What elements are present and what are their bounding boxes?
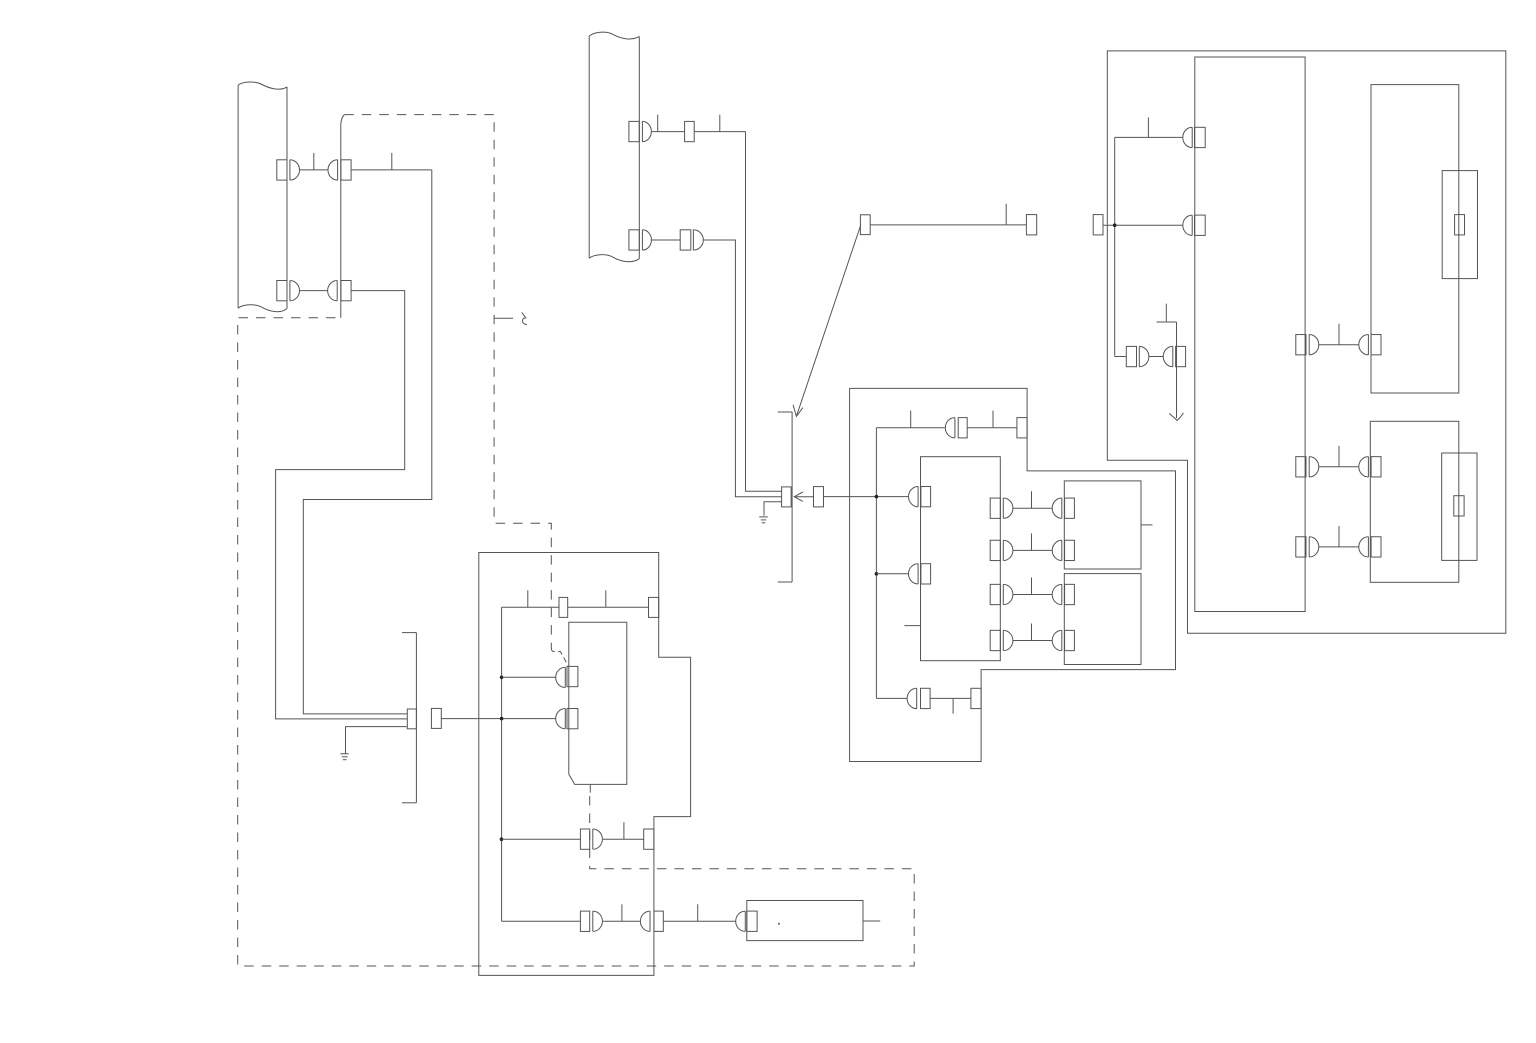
dashed harness boundary upper xyxy=(344,115,551,649)
board E1a outline xyxy=(1195,57,1305,612)
wire row R3 of M1 xyxy=(502,920,581,922)
connector M1a row1 xyxy=(556,666,578,687)
wire X1 to module M1 xyxy=(441,718,556,720)
connector E1c row3 xyxy=(1359,537,1381,557)
pin tick T6a xyxy=(1005,204,1007,225)
connector R2 left xyxy=(580,829,602,849)
connector E1a row2 xyxy=(1183,215,1205,235)
connector body M2c xyxy=(921,457,1001,661)
wire M2 bottom cont xyxy=(930,697,971,699)
connector pair P5 terminal B xyxy=(1163,346,1185,366)
wire row R2 of M1 xyxy=(502,838,581,840)
connector M2 bottom xyxy=(907,688,930,708)
connector M2 top xyxy=(945,418,967,438)
connector E1a row1 xyxy=(1183,127,1205,147)
terminal R2 at M1 edge xyxy=(644,829,654,849)
wire from A1 xyxy=(863,920,880,922)
harness W2 (torn strip) xyxy=(589,32,639,262)
connector K2 row3 xyxy=(1052,584,1074,604)
terminal on X1 xyxy=(407,709,416,729)
terminal R1 at M1 edge xyxy=(649,597,659,617)
wire E1a row1 xyxy=(1319,344,1359,346)
connector pair P1 terminal A xyxy=(277,160,300,180)
diagonal arrow callout xyxy=(793,225,861,417)
arrow assembly tick xyxy=(1165,304,1167,322)
terminal in S1 xyxy=(1455,215,1465,235)
pin tick P3b xyxy=(719,115,721,132)
connector pair P4 terminal B xyxy=(680,230,703,250)
connector K2 row4 xyxy=(1052,630,1074,650)
wire E1a row2 xyxy=(1319,466,1359,468)
wire P1 to bracket X1 upper xyxy=(303,170,432,714)
relay K1 box xyxy=(1064,481,1141,569)
pin tick E1b1 xyxy=(1338,324,1340,345)
board E1c outline xyxy=(1370,421,1459,582)
connector pair P3 terminal A xyxy=(629,121,652,141)
wire E1 row2 xyxy=(1103,224,1183,226)
connector E1c row2 xyxy=(1359,457,1381,477)
pin tick M2f xyxy=(1031,533,1033,550)
junction dot J3 xyxy=(500,837,504,841)
relay K2 box xyxy=(1064,574,1141,665)
harness W1 (torn strip) xyxy=(238,82,287,312)
wire M2 top cont xyxy=(967,427,1017,429)
module M2 outline xyxy=(850,388,1176,761)
wire P4 down to X2 xyxy=(703,240,781,497)
connector at actuator A1 xyxy=(736,911,757,931)
terminal in S2 xyxy=(1454,496,1464,516)
module M1 outline xyxy=(479,553,691,976)
connector R3 left xyxy=(580,911,602,931)
board E1b outline xyxy=(1371,85,1459,393)
connector K1 row2 xyxy=(1052,540,1074,560)
terminal M2 top edge xyxy=(1017,418,1027,438)
dashed harness boundary lower xyxy=(238,318,915,966)
dashed boundary hook to module xyxy=(551,648,568,666)
break mark tick xyxy=(494,317,513,319)
arrow down xyxy=(1169,322,1183,420)
connector M2c row1 xyxy=(909,487,931,507)
wire M2c row4 xyxy=(1013,640,1052,642)
wire row R1 of M1 xyxy=(502,606,559,608)
wire M2 vertical bus xyxy=(875,428,877,699)
ECU E1 outline xyxy=(1107,51,1506,633)
wire E1 row1 xyxy=(1115,136,1183,138)
terminal T5 xyxy=(814,487,824,507)
wire M2c row1 xyxy=(1013,507,1052,509)
wire R3 xyxy=(603,920,640,922)
dot label in A1 xyxy=(778,923,780,925)
ground symbol G1 xyxy=(340,754,348,760)
wire R3 to actuator xyxy=(663,920,735,922)
wire P4 xyxy=(651,239,680,241)
pin tick E1a1 xyxy=(1147,118,1149,138)
connector M2c row2 xyxy=(909,564,931,584)
wire E1a row3 xyxy=(1319,546,1359,548)
wire E1 row3 xyxy=(1115,356,1127,358)
connector pair P1 terminal B xyxy=(328,160,351,180)
pin tick E1c2 xyxy=(1338,526,1340,547)
wire P3 cont xyxy=(694,131,745,133)
bracket connector X2 xyxy=(778,412,792,582)
connector pair P2 terminal A xyxy=(277,281,300,301)
terminal on X2 xyxy=(782,487,792,507)
connector R3 right xyxy=(640,911,663,931)
wire from P1 xyxy=(351,169,432,171)
ground wire at X2 xyxy=(764,502,782,516)
terminal T7 xyxy=(1026,215,1036,235)
pin tick P3a xyxy=(657,115,659,132)
socket S2 box xyxy=(1442,453,1477,560)
wire M2 bottom row xyxy=(876,697,907,699)
wire P3 down to X2 xyxy=(746,132,782,492)
connector M1a row2 xyxy=(556,709,578,729)
wire M2c row3 xyxy=(1013,594,1052,596)
connector pair P4 terminal A xyxy=(629,230,652,250)
terminal X1 mate xyxy=(431,708,441,728)
tick below M1a xyxy=(589,784,591,792)
sub-module M1a outline xyxy=(569,622,627,784)
ground symbol G2 xyxy=(759,517,768,523)
connector pair P2 terminal B xyxy=(328,281,351,301)
wire R2 xyxy=(603,838,644,840)
wire E1 vertical bus xyxy=(1114,137,1116,356)
pin tick M2a xyxy=(910,411,912,428)
pin tick P1a xyxy=(313,153,315,170)
terminal M2 bottom edge xyxy=(971,688,981,708)
harness boundary jog (solid) xyxy=(341,115,345,125)
tick on M2c left xyxy=(904,625,920,627)
pin tick E1c1 xyxy=(1338,446,1340,467)
connector pair P5 terminal A xyxy=(1126,346,1149,366)
pin tick M2h xyxy=(1031,624,1033,641)
M2c right row1 xyxy=(990,498,1013,518)
pin tick R3a xyxy=(621,904,623,921)
actuator A1 box xyxy=(747,901,863,941)
wire T6 to T7 xyxy=(870,224,1026,226)
pin tick M2b xyxy=(992,411,994,428)
pin tick R3b xyxy=(697,904,699,921)
junction dot J6 xyxy=(1113,223,1117,227)
M2c right row3 xyxy=(990,584,1013,604)
terminal T8 xyxy=(1093,215,1103,235)
M2c right row2 xyxy=(990,540,1013,560)
junction dot J5 xyxy=(875,572,879,576)
socket S1 box xyxy=(1442,171,1477,279)
ground wire at X1 xyxy=(346,727,408,754)
E1a right row1 xyxy=(1296,335,1319,355)
junction dot J4 xyxy=(875,495,879,499)
pin tick P1b xyxy=(391,153,393,170)
harness boundary vertical (solid) xyxy=(340,125,342,318)
M2c right row4 xyxy=(990,630,1013,650)
terminal R1 mid xyxy=(559,597,568,617)
wire P1 xyxy=(300,169,329,171)
junction dot J1 xyxy=(500,676,504,680)
wire M2c row2 xyxy=(1013,549,1052,551)
E1a right row3 xyxy=(1296,537,1319,557)
arrow assembly bar xyxy=(1157,321,1177,323)
pin tick M2e xyxy=(1031,491,1033,508)
bracket connector X1 xyxy=(402,633,416,803)
terminal T6 xyxy=(860,215,870,235)
wire P3 xyxy=(651,131,684,133)
wire to M2c row2 xyxy=(876,573,908,575)
tick on K1 right xyxy=(1141,524,1153,526)
wire to M1a row1 xyxy=(502,676,556,678)
pin tick M2g xyxy=(1031,578,1033,595)
E1a right row2 xyxy=(1296,457,1319,477)
break mark squiggle xyxy=(522,312,527,324)
pin tick R2a xyxy=(623,822,625,839)
wire T5 to M2 xyxy=(824,496,909,498)
junction dot J2 xyxy=(500,717,504,721)
wire P5 xyxy=(1149,356,1163,358)
arrowhead into X2 xyxy=(794,492,803,501)
wire M2 top row xyxy=(876,427,945,429)
wire R1 cont xyxy=(568,606,649,608)
connector K1 row1 xyxy=(1052,498,1074,518)
terminal P3 mid xyxy=(685,121,695,141)
pin tick R1a xyxy=(527,590,529,607)
wire M1 vertical bus xyxy=(501,607,503,921)
wire from arrow to M2 xyxy=(794,496,813,498)
pin tick R1b xyxy=(605,590,607,607)
connector E1b row1 xyxy=(1359,335,1381,355)
wire P2 to bracket X1 lower xyxy=(276,291,408,719)
pin tick M2d (down) xyxy=(952,698,954,713)
wire P2 xyxy=(300,290,328,292)
